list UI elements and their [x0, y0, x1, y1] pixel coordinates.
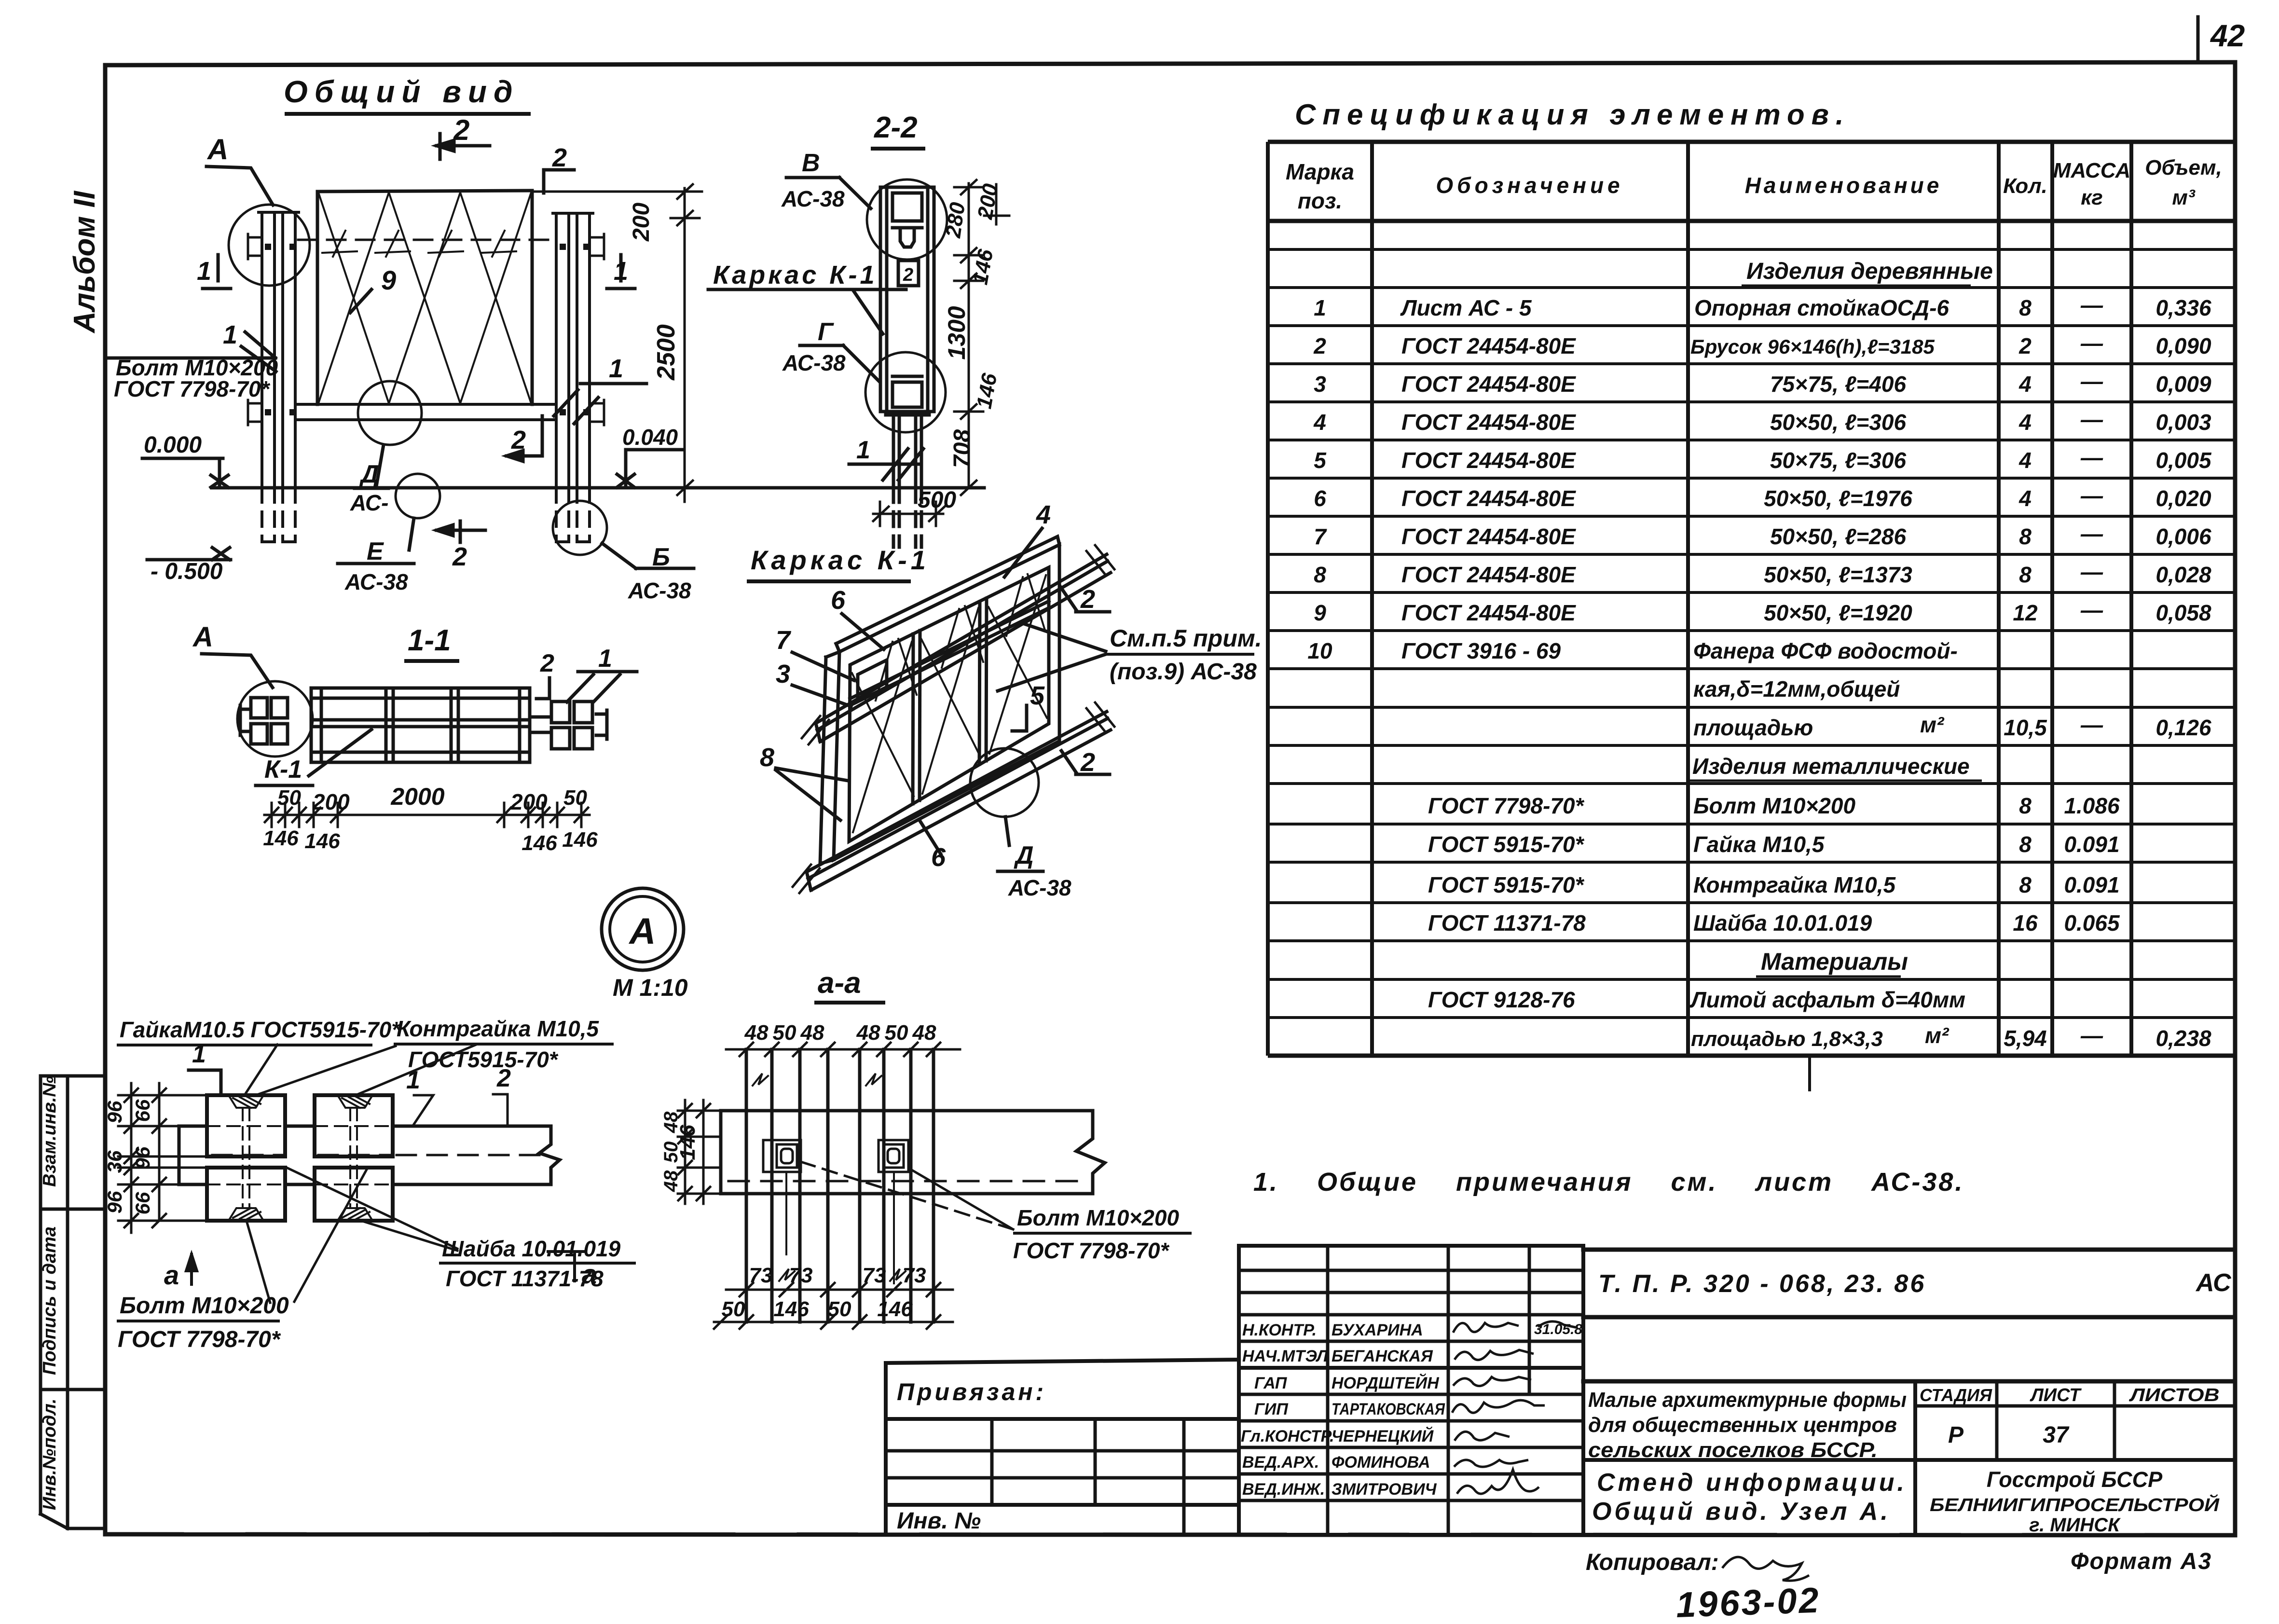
level mark 0.000	[142, 458, 228, 487]
bolt ticks left top	[248, 234, 604, 425]
svg-text:для общественных центров: для общественных центров	[1588, 1413, 1897, 1437]
K-1 frame outer	[834, 545, 1059, 860]
svg-text:АС-38: АС-38	[781, 186, 845, 211]
leader G	[800, 345, 879, 381]
circle B(lower right)	[553, 501, 607, 555]
staff table	[1239, 1246, 1583, 1534]
svg-text:—: —	[2080, 292, 2103, 317]
svg-text:3: 3	[776, 660, 790, 688]
svg-text:42: 42	[2210, 18, 2245, 53]
svg-text:МАССА: МАССА	[2053, 159, 2130, 182]
svg-text:Копировал:: Копировал:	[1586, 1550, 1719, 1575]
svg-text:А: А	[192, 621, 213, 653]
svg-text:Болт М10×200: Болт М10×200	[120, 1293, 289, 1319]
svg-text:Лист АС - 5: Лист АС - 5	[1400, 295, 1532, 320]
bolt shanks dashed	[243, 1108, 357, 1208]
leader A 1-1	[202, 654, 273, 688]
svg-text:АС-38: АС-38	[1008, 875, 1071, 900]
svg-text:ГОСТ 24454-80Е: ГОСТ 24454-80Е	[1401, 410, 1576, 435]
svg-text:9: 9	[1314, 600, 1326, 625]
svg-text:м²: м²	[1925, 1023, 1950, 1048]
svg-text:Альбом II: Альбом II	[68, 190, 101, 334]
svg-text:поз.: поз.	[1298, 188, 1342, 213]
svg-text:7: 7	[776, 626, 792, 655]
section mark 2 at rail	[507, 416, 542, 461]
svg-text:Стенд информации.: Стенд информации.	[1597, 1469, 1907, 1497]
svg-text:Р: Р	[1948, 1422, 1964, 1448]
svg-text:48: 48	[856, 1021, 880, 1045]
svg-text:1: 1	[1314, 295, 1326, 320]
lower long rail	[793, 702, 1114, 893]
svg-text:Брусок 96×146(h),ℓ=3185: Брусок 96×146(h),ℓ=3185	[1690, 335, 1935, 358]
svg-text:2: 2	[903, 265, 913, 285]
svg-text:Болт М10×200: Болт М10×200	[1693, 793, 1855, 818]
svg-text:9: 9	[381, 265, 396, 295]
svg-text:500: 500	[918, 487, 956, 513]
svg-text:1300: 1300	[943, 306, 970, 359]
post 2 plan	[860, 1049, 934, 1322]
svg-text:Объем,: Объем,	[2145, 156, 2222, 179]
svg-text:—: —	[2080, 445, 2103, 470]
svg-text:0,009: 0,009	[2155, 372, 2211, 397]
svg-text:5,94: 5,94	[2004, 1026, 2047, 1051]
svg-text:Каркас К-1: Каркас К-1	[713, 261, 878, 289]
svg-text:Контргайка М10,5: Контргайка М10,5	[397, 1016, 600, 1041]
svg-text:ВЕД.АРХ.: ВЕД.АРХ.	[1242, 1453, 1319, 1472]
svg-text:Г: Г	[818, 318, 834, 346]
svg-text:0,090: 0,090	[2155, 333, 2211, 358]
leader 1 to bolts	[567, 672, 637, 702]
K-1 stud 2	[979, 598, 987, 764]
svg-text:66: 66	[131, 1099, 154, 1122]
svg-text:Изделия деревянные: Изделия деревянные	[1746, 259, 1993, 284]
svg-text:ГАП: ГАП	[1254, 1374, 1288, 1392]
svg-text:НАЧ.МТЭЛ: НАЧ.МТЭЛ	[1242, 1347, 1328, 1365]
leader 1 right	[554, 384, 646, 424]
svg-text:50: 50	[277, 786, 301, 810]
svg-text:Изделия металлические: Изделия металлические	[1692, 754, 1970, 779]
svg-text:8: 8	[2019, 793, 2032, 818]
svg-text:4: 4	[2018, 448, 2032, 473]
main title block	[1583, 1250, 2235, 1381]
svg-text:—: —	[2080, 521, 2103, 546]
svg-text:6: 6	[831, 586, 846, 615]
section mark 2 top	[437, 134, 490, 159]
svg-text:37: 37	[2043, 1422, 2070, 1448]
rail dashed center a-a	[728, 1180, 1085, 1183]
svg-text:4: 4	[1036, 500, 1051, 529]
K-1 top face 3d edge	[836, 537, 1059, 644]
svg-text:146: 146	[877, 1297, 913, 1321]
leaders bolt a-a	[801, 1162, 1013, 1229]
K-1 X braces	[852, 575, 1047, 832]
K-1 top corner window	[858, 660, 887, 702]
bottom rail	[295, 404, 556, 420]
svg-text:4: 4	[2018, 410, 2032, 435]
leader 3	[792, 685, 851, 706]
svg-text:площадью 1,8×3,3: площадью 1,8×3,3	[1691, 1027, 1883, 1051]
level 0.040 mark	[617, 450, 683, 487]
left post below ground dashed	[262, 488, 295, 542]
a section marks	[186, 1252, 585, 1284]
svg-text:А: А	[629, 911, 656, 952]
circle E	[396, 474, 440, 518]
left stamp strip	[41, 1076, 105, 1528]
svg-text:ГОСТ 11371-78: ГОСТ 11371-78	[446, 1266, 604, 1291]
svg-text:0.091: 0.091	[2064, 832, 2119, 857]
svg-text:а: а	[164, 1260, 179, 1290]
K-1 band braces	[876, 574, 1045, 701]
leader V	[786, 178, 871, 208]
leader 1 lower	[849, 449, 923, 480]
svg-text:Формат А3: Формат А3	[2071, 1549, 2212, 1574]
post 1 plan	[746, 1049, 828, 1322]
svg-text:0,005: 0,005	[2155, 448, 2212, 473]
bottom dim lines a-a	[714, 1283, 953, 1329]
svg-text:Контргайка М10,5: Контргайка М10,5	[1693, 872, 1896, 897]
svg-text:ФОМИНОВА: ФОМИНОВА	[1332, 1453, 1430, 1472]
beam K-1 plan	[311, 688, 530, 762]
svg-text:ГОСТ 24454-80Е: ГОСТ 24454-80Е	[1401, 372, 1576, 397]
svg-text:146: 146	[773, 1297, 809, 1321]
svg-text:7: 7	[1314, 524, 1327, 549]
dim 500 below	[873, 502, 945, 526]
svg-text:Кол.: Кол.	[2003, 174, 2047, 198]
svg-text:ГОСТ 7798-70*: ГОСТ 7798-70*	[1013, 1238, 1170, 1263]
section mark 1 right	[607, 255, 635, 289]
svg-text:ГОСТ 3916 - 69: ГОСТ 3916 - 69	[1401, 638, 1561, 663]
svg-text:50: 50	[563, 786, 587, 810]
dim line right 200/2500	[532, 184, 702, 502]
leader 1 left	[241, 346, 276, 372]
svg-text:В: В	[802, 149, 820, 177]
ground line	[212, 486, 984, 490]
level mark -0.500	[147, 548, 231, 560]
svg-text:—: —	[2080, 712, 2103, 737]
section mark 1 left	[203, 255, 231, 289]
leader 4	[1004, 528, 1042, 577]
svg-text:Госстрой БССР: Госстрой БССР	[1987, 1467, 2163, 1492]
upper long rail	[802, 545, 1114, 744]
svg-text:50: 50	[885, 1021, 908, 1045]
rail dashed centers	[212, 1154, 545, 1156]
leader 7	[792, 652, 854, 680]
leader KARKAS K-1	[708, 289, 906, 334]
svg-text:4: 4	[2018, 486, 2032, 511]
svg-text:73: 73	[903, 1264, 926, 1287]
right post OSD-6	[553, 213, 593, 488]
top dim line a-a	[726, 1043, 960, 1056]
svg-text:а-а: а-а	[818, 966, 861, 1000]
svg-text:площадью: площадью	[1693, 715, 1813, 740]
svg-text:Шайба 10.01.019: Шайба 10.01.019	[442, 1236, 621, 1261]
svg-text:8: 8	[760, 743, 774, 772]
svg-text:48: 48	[800, 1021, 824, 1045]
svg-text:Подпись и дата: Подпись и дата	[40, 1226, 60, 1375]
svg-text:48: 48	[660, 1111, 682, 1133]
svg-text:0,058: 0,058	[2155, 600, 2211, 625]
right post below ground dashed	[556, 488, 590, 542]
specification table grid	[1268, 142, 2235, 1091]
svg-text:Фанера ФСФ водостой-: Фанера ФСФ водостой-	[1693, 638, 1958, 663]
svg-text:200: 200	[312, 789, 350, 814]
svg-text:Т. П. Р. 320 - 068, 23. 86: Т. П. Р. 320 - 068, 23. 86	[1598, 1270, 1926, 1298]
svg-text:Инв.№подл.: Инв.№подл.	[40, 1399, 60, 1510]
svg-text:50×50, ℓ=306: 50×50, ℓ=306	[1770, 410, 1907, 435]
svg-text:ЛИСТ: ЛИСТ	[2030, 1385, 2082, 1405]
svg-text:НОРДШТЕЙН: НОРДШТЕЙН	[1332, 1374, 1440, 1392]
detail circle G	[865, 352, 946, 432]
svg-text:50×50, ℓ=1373: 50×50, ℓ=1373	[1764, 562, 1912, 587]
svg-text:2-2: 2-2	[874, 111, 918, 144]
svg-text:1. Общие примечания см. лист: 1. Общие примечания см. лист АС-38.	[1253, 1168, 1964, 1197]
svg-text:5: 5	[1030, 681, 1045, 710]
svg-text:ЧЕРНЕЦКИЙ: ЧЕРНЕЦКИЙ	[1332, 1427, 1434, 1445]
svg-text:73: 73	[789, 1264, 813, 1287]
mark 2 upper	[1060, 587, 1110, 612]
rail dashes through blocks	[207, 1126, 393, 1184]
nut blocks	[207, 1095, 393, 1221]
svg-text:(поз.9) АС-38: (поз.9) АС-38	[1110, 659, 1257, 685]
panel cross bracing	[318, 193, 531, 403]
detail circle V	[867, 179, 947, 260]
svg-text:—: —	[2080, 483, 2103, 508]
svg-text:146: 146	[522, 831, 557, 855]
svg-text:АС-: АС-	[350, 490, 388, 515]
svg-text:—: —	[2080, 407, 2103, 432]
rail plan lines	[179, 1126, 560, 1184]
svg-text:8: 8	[1314, 562, 1326, 587]
mark 2 lower	[1061, 751, 1110, 774]
svg-text:8: 8	[2019, 295, 2032, 320]
signatures squiggles	[1452, 1321, 1578, 1494]
svg-text:г. МИНСК: г. МИНСК	[2029, 1514, 2121, 1536]
svg-text:0,003: 0,003	[2155, 410, 2211, 435]
svg-text:ГОСТ 24454-80Е: ГОСТ 24454-80Е	[1401, 448, 1576, 473]
bolt heads	[265, 244, 590, 415]
svg-text:2: 2	[452, 542, 467, 571]
left dim chains a-a	[678, 1100, 721, 1204]
svg-text:2000: 2000	[390, 783, 444, 810]
svg-text:м²: м²	[1920, 712, 1945, 737]
leader 9	[350, 289, 371, 313]
section mark 2 below ground	[437, 521, 485, 542]
leaders detail	[246, 1045, 475, 1303]
svg-text:48: 48	[912, 1021, 936, 1045]
svg-text:1: 1	[197, 257, 211, 286]
svg-text:2: 2	[453, 114, 469, 146]
bracket 5	[1012, 705, 1027, 731]
bolt head 1	[763, 1140, 801, 1172]
svg-text:2: 2	[1080, 748, 1095, 777]
svg-text:146: 146	[304, 829, 340, 853]
svg-text:Д: Д	[359, 460, 379, 488]
svg-text:ГОСТ 5915-70*: ГОСТ 5915-70*	[1428, 872, 1585, 897]
svg-text:1-1: 1-1	[408, 624, 451, 657]
svg-text:6: 6	[1314, 486, 1326, 511]
svg-text:96: 96	[131, 1146, 154, 1169]
svg-text:5: 5	[1314, 448, 1327, 473]
svg-text:Привязан:: Привязан:	[897, 1378, 1046, 1405]
svg-text:ГОСТ 24454-80Е: ГОСТ 24454-80Е	[1401, 333, 1576, 358]
svg-text:ГОСТ 7798-70*: ГОСТ 7798-70*	[1428, 793, 1585, 818]
svg-text:48: 48	[744, 1021, 769, 1045]
svg-text:146: 146	[263, 826, 299, 850]
svg-text:Наименование: Наименование	[1745, 173, 1942, 198]
svg-text:0,336: 0,336	[2155, 295, 2211, 320]
svg-text:280: 280	[941, 201, 970, 240]
circle D axon	[970, 748, 1039, 817]
svg-text:ЗМИТРОВИЧ: ЗМИТРОВИЧ	[1332, 1480, 1437, 1499]
svg-text:Общий вид: Общий вид	[284, 74, 520, 109]
left post OSD-6	[259, 212, 299, 488]
svg-text:ЛИСТОВ: ЛИСТОВ	[2128, 1385, 2219, 1405]
right bolt assembly	[530, 702, 607, 749]
svg-text:СТАДИЯ: СТАДИЯ	[1920, 1385, 1992, 1405]
svg-text:48: 48	[660, 1170, 682, 1192]
svg-text:2: 2	[552, 143, 567, 172]
dim chains left of blocks	[118, 1083, 212, 1233]
svg-text:8: 8	[2019, 832, 2032, 857]
svg-text:ГОСТ 24454-80Е: ГОСТ 24454-80Е	[1401, 524, 1576, 549]
leader K-1	[309, 729, 371, 776]
svg-text:См.п.5 прим.: См.п.5 прим.	[1110, 625, 1262, 652]
svg-text:Обозначение: Обозначение	[1436, 173, 1623, 198]
svg-text:200: 200	[510, 789, 548, 814]
leader 6 bottom	[920, 820, 941, 854]
svg-text:БЕЛНИИГИПРОСЕЛЬСТРОЙ: БЕЛНИИГИПРОСЕЛЬСТРОЙ	[1930, 1494, 2220, 1515]
svg-text:АС-38: АС-38	[782, 350, 846, 375]
svg-text:0.065: 0.065	[2064, 910, 2120, 936]
svg-text:1: 1	[223, 320, 237, 349]
svg-text:0,020: 0,020	[2155, 486, 2211, 511]
svg-text:ГОСТ 24454-80Е: ГОСТ 24454-80Е	[1401, 600, 1576, 625]
leader 2 on beam	[536, 678, 549, 699]
leaders sm prim	[998, 623, 1106, 691]
svg-text:м³: м³	[2172, 186, 2196, 209]
K-1 upper band	[850, 601, 1049, 705]
svg-text:12: 12	[2013, 600, 2038, 625]
svg-text:2: 2	[1313, 333, 1326, 358]
svg-text:Д: Д	[1014, 841, 1034, 869]
svg-text:сельских поселков БССР.: сельских поселков БССР.	[1588, 1438, 1878, 1462]
post section 2-2 body	[880, 187, 934, 412]
svg-text:1: 1	[609, 354, 623, 383]
svg-text:ГОСТ 11371-78: ГОСТ 11371-78	[1428, 910, 1586, 936]
svg-text:6: 6	[931, 843, 946, 872]
table header texts	[1286, 156, 2222, 213]
svg-text:0.091: 0.091	[2064, 872, 2119, 897]
rail plan a-a	[721, 1111, 1105, 1194]
svg-text:ТАРТАКОВСКАЯ: ТАРТАКОВСКАЯ	[1332, 1400, 1445, 1418]
svg-text:0.040: 0.040	[622, 425, 678, 450]
bolt vertical stems	[785, 1172, 787, 1254]
svg-text:Материалы: Материалы	[1761, 948, 1908, 975]
svg-text:Взам.инв.№: Взам.инв.№	[40, 1076, 60, 1187]
svg-text:36: 36	[103, 1150, 126, 1173]
left bolt assembly	[240, 698, 288, 744]
svg-text:ГИП: ГИП	[1254, 1400, 1289, 1418]
svg-text:16: 16	[2013, 910, 2038, 936]
svg-text:АС: АС	[2195, 1269, 2232, 1297]
leader A	[206, 166, 273, 205]
svg-text:4: 4	[2018, 372, 2032, 397]
staff table labels	[1241, 1321, 1445, 1499]
svg-text:Малые архитектурные формы: Малые архитектурные формы	[1588, 1388, 1907, 1412]
svg-text:Е: Е	[367, 537, 384, 565]
dim chain 2-2 right	[954, 180, 1009, 495]
svg-text:73: 73	[863, 1264, 886, 1287]
svg-text:Литой асфальт δ=40мм: Литой асфальт δ=40мм	[1689, 987, 1965, 1012]
svg-text:ГОСТ 24454-80Е: ГОСТ 24454-80Е	[1401, 562, 1576, 587]
svg-text:ГайкаМ10.5 ГОСТ5915-70*: ГайкаМ10.5 ГОСТ5915-70*	[120, 1017, 401, 1042]
svg-text:Каркас К-1: Каркас К-1	[751, 545, 930, 575]
bolt label leader	[108, 332, 275, 358]
svg-text:66: 66	[131, 1192, 154, 1214]
leader 8	[776, 768, 848, 820]
svg-text:50×50, ℓ=286: 50×50, ℓ=286	[1770, 524, 1907, 549]
marker lines 1/1/2	[189, 1070, 221, 1093]
svg-text:73: 73	[749, 1264, 773, 1287]
svg-text:Опорная стойкаОСД-6: Опорная стойкаОСД-6	[1694, 295, 1949, 320]
svg-text:—: —	[2080, 369, 2103, 394]
svg-text:10: 10	[1307, 638, 1332, 663]
svg-text:1963-02: 1963-02	[1675, 1580, 1821, 1624]
svg-text:Болт М10×200: Болт М10×200	[1017, 1205, 1179, 1230]
svg-text:50: 50	[722, 1297, 745, 1321]
svg-text:Шайба 10.01.019: Шайба 10.01.019	[1693, 910, 1872, 936]
svg-text:2: 2	[496, 1064, 511, 1092]
svg-text:2500: 2500	[652, 324, 680, 381]
K-1 stud 1	[913, 631, 920, 804]
svg-text:96: 96	[103, 1191, 126, 1213]
svg-text:0,238: 0,238	[2155, 1026, 2211, 1051]
svg-text:—: —	[2080, 330, 2103, 356]
svg-text:8: 8	[2019, 562, 2032, 587]
privyazan box	[886, 1360, 1239, 1534]
svg-text:50×75, ℓ=306: 50×75, ℓ=306	[1770, 448, 1907, 473]
sign panel	[317, 191, 532, 404]
hidden top rail dashed	[298, 239, 554, 241]
svg-text:АС-38: АС-38	[344, 569, 408, 594]
svg-text:0,126: 0,126	[2155, 715, 2211, 740]
table body	[1307, 259, 2212, 1051]
detail marker circle A M1:10	[602, 888, 684, 970]
svg-text:БУХАРИНА: БУХАРИНА	[1332, 1321, 1423, 1339]
svg-text:Марка: Марка	[1286, 159, 1354, 184]
svg-text:50: 50	[828, 1297, 851, 1321]
svg-text:Общий вид. Узел А.: Общий вид. Узел А.	[1592, 1498, 1891, 1526]
svg-text:ГОСТ 9128-76: ГОСТ 9128-76	[1428, 987, 1575, 1012]
svg-text:200: 200	[629, 203, 654, 242]
svg-text:—: —	[2080, 559, 2103, 584]
svg-text:1: 1	[192, 1040, 206, 1068]
circle D	[358, 381, 422, 445]
leader 6 top	[842, 614, 884, 649]
svg-text:50: 50	[773, 1021, 796, 1045]
svg-text:75×75, ℓ=406: 75×75, ℓ=406	[1770, 372, 1907, 397]
svg-text:Гайка М10,5: Гайка М10,5	[1693, 832, 1825, 857]
K-1 left face 3d edge	[820, 657, 834, 864]
post 2-2 below panel	[886, 412, 929, 488]
svg-text:- 0.500: - 0.500	[151, 559, 223, 584]
svg-text:8: 8	[2019, 524, 2032, 549]
svg-text:2: 2	[511, 426, 526, 454]
svg-text:АС-38: АС-38	[628, 578, 691, 603]
svg-text:БЕГАНСКАЯ: БЕГАНСКАЯ	[1332, 1347, 1433, 1365]
svg-text:ГОСТ5915-70*: ГОСТ5915-70*	[408, 1047, 559, 1072]
svg-text:50: 50	[660, 1142, 682, 1163]
